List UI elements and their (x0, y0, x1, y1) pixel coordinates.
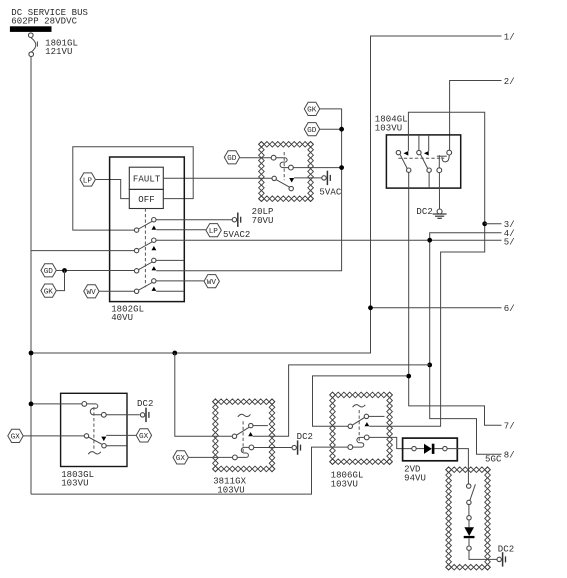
junction terminal3 (482, 221, 487, 226)
contact 1804GL c2 NO mark (424, 151, 429, 156)
contact 1802GL row1 NO mark (152, 226, 157, 230)
contact 3811GX (232, 423, 253, 438)
contact 1806GL (348, 414, 369, 428)
wire ring to OFF box (73, 147, 193, 230)
label DC2 5GC (498, 544, 514, 554)
terminal 4/ (504, 229, 515, 239)
bus bar (10, 26, 52, 32)
junction bus y353 (29, 351, 34, 356)
svg-text:GK: GK (307, 107, 317, 115)
wire bus vertical (30, 56, 32, 494)
lamp 20LP hatched box (259, 142, 314, 202)
wire coil 1806GL to 2VD (369, 437, 412, 448)
svg-text:1/: 1/ (504, 32, 515, 42)
svg-text:121VU: 121VU (45, 47, 72, 57)
terminal 3/ (504, 220, 515, 230)
wire 5GC switch to diode (468, 505, 470, 516)
relay 1804GL box (386, 135, 460, 188)
svg-text:GD: GD (44, 268, 54, 276)
svg-text:GX: GX (176, 455, 186, 463)
wire row1 NO to LP (156, 229, 205, 231)
contact 1802GL row4 NO mark (152, 287, 157, 291)
relay 3811GX hatched box (213, 399, 275, 472)
wire coil 1803GL to ground (106, 414, 140, 416)
svg-text:7/: 7/ (504, 422, 515, 432)
label 1801GL (45, 38, 78, 57)
contact 1803GL NO mark (101, 437, 106, 442)
terminal 5/ (504, 238, 515, 248)
wire terminal4 net (430, 233, 502, 454)
wire GX to 1803GL contact (24, 435, 85, 437)
squiggle 1806GL (353, 405, 366, 408)
label 20LP 70VU (252, 207, 274, 226)
contact 1802GL row1 (134, 218, 156, 233)
svg-text:5VAC2: 5VAC2 (223, 230, 250, 240)
diode circle bottom 5GC (467, 546, 471, 550)
dashed link 1806GL (358, 410, 360, 442)
coil 1804GL (437, 150, 452, 172)
wire 1803GL contact stub (106, 445, 126, 447)
coil 1803GL (82, 402, 106, 418)
diode circle top 5GC (467, 516, 471, 520)
relay 1806GL hatched box (330, 392, 393, 464)
svg-text:OFF: OFF (138, 195, 154, 205)
wire feed to 3811GX common (175, 353, 233, 436)
wire row1 to 5VAC ground (156, 219, 232, 221)
label 1803GL (61, 470, 94, 489)
wire 5GC to ground (469, 550, 497, 559)
svg-text:5/: 5/ (504, 238, 515, 248)
wire row4 NO stub (156, 290, 184, 292)
switch 5GC hatched box (446, 467, 491, 570)
svg-text:103VU: 103VU (375, 123, 402, 133)
svg-text:DC2: DC2 (137, 399, 153, 409)
svg-text:DC2: DC2 (416, 207, 432, 217)
terminal 2/ (504, 77, 515, 87)
ground DC2 5GC (497, 552, 506, 566)
wire LP to OFF box (96, 180, 130, 199)
svg-text:GK: GK (44, 288, 54, 296)
coil 1806GL (348, 435, 369, 450)
svg-text:6/: 6/ (504, 304, 515, 314)
junction terminal5 net (427, 238, 432, 243)
wire bus bottom run (31, 447, 348, 494)
svg-text:103VU: 103VU (331, 479, 358, 489)
wire GD to lamp coil (240, 157, 271, 159)
wire row4 to WV (156, 280, 204, 282)
label DC2 1804GL (416, 207, 432, 217)
hexagon flag LP right (206, 224, 221, 237)
label 3811GX (213, 477, 246, 496)
coil 3811GX (233, 445, 254, 460)
wire bus to coil 1803GL (31, 403, 82, 405)
wire 3811GX NO to net (253, 365, 430, 436)
wire FAULT to lamp switch (163, 177, 272, 179)
svg-text:2/: 2/ (504, 77, 515, 87)
hexagon flag GD top (304, 123, 319, 136)
contact 1806GL NC stub (369, 415, 385, 417)
squiggle 1803GL (88, 452, 101, 455)
wire NO net 1804GL (369, 112, 484, 426)
wire common net 1804GL to terminal7 (409, 172, 502, 425)
svg-text:WV: WV (207, 279, 217, 287)
lamp switch 20LP (272, 176, 293, 191)
svg-text:8/: 8/ (504, 451, 515, 461)
label 2VD (404, 465, 426, 484)
junction GD/GK (62, 268, 67, 273)
svg-text:FAULT: FAULT (133, 175, 161, 185)
wire WV to row4 (99, 290, 134, 292)
label 5VAC (319, 188, 341, 198)
hexagon flag GX edge (8, 429, 23, 442)
junction terminal6 (368, 305, 373, 310)
contact 1804GL c2 (417, 150, 432, 172)
label 1804GL (375, 115, 408, 134)
svg-text:103VU: 103VU (61, 479, 88, 489)
contact 1804GL c1 NO mark (404, 151, 409, 156)
contact 1802GL row4 (134, 279, 156, 294)
junction GD lamp net (339, 127, 344, 132)
hexagon flag WV left (84, 285, 99, 298)
label 5GC (485, 454, 502, 464)
terminal 1/ (504, 32, 515, 42)
svg-text:DC2: DC2 (297, 432, 313, 442)
svg-text:LP: LP (209, 228, 219, 236)
label DC2 3811GX (297, 432, 313, 442)
wire 5GC diode stub top (468, 520, 470, 527)
svg-text:5GC: 5GC (485, 454, 502, 464)
dashed link 3811GX (242, 421, 244, 453)
wire terminal3 branch (485, 223, 502, 225)
svg-text:WV: WV (87, 289, 97, 297)
lamp 20LP filament coil (271, 155, 293, 170)
label DC2 1803GL (137, 399, 153, 409)
wire bus to row2 (31, 250, 135, 252)
contact 1803GL (84, 434, 106, 448)
ground 5VAC (322, 171, 331, 185)
junction bus coil 1803GL (29, 402, 34, 407)
hexagon flag GX 3811 (173, 451, 188, 464)
label 1802GL (111, 305, 144, 324)
wire 1804GL c2 NO stub (428, 136, 430, 151)
wire row2 to terminal 5 (156, 239, 502, 241)
wire GX to coil 3811GX (189, 456, 233, 458)
svg-text:5VAC: 5VAC (319, 188, 341, 198)
indicator box OFF (129, 189, 163, 208)
terminal 7/ (504, 422, 515, 432)
svg-text:GD: GD (227, 155, 237, 163)
diode 2VD (412, 444, 447, 454)
svg-text:40VU: 40VU (111, 313, 133, 323)
svg-text:GD: GD (307, 127, 317, 135)
svg-text:70VU: 70VU (252, 216, 274, 226)
contact 3811GX NC stub (253, 425, 268, 427)
dashed link 1802GL (144, 209, 146, 288)
svg-text:103VU: 103VU (217, 485, 244, 495)
wire terminal6 branch (371, 307, 502, 309)
ground DC2 1804GL (433, 209, 447, 218)
ground DC2 3811GX (292, 440, 301, 454)
wire 1804GL c2 top stub (418, 136, 420, 151)
label 1806GL (331, 471, 364, 490)
hexagon flag LP (80, 173, 95, 186)
svg-text:GX: GX (139, 433, 149, 441)
wire GD to row3 (57, 270, 135, 272)
wire GK up to GD wire (57, 271, 65, 291)
relay 1802GL box (110, 157, 185, 302)
contact 1804GL c1 (396, 150, 411, 172)
hexagon flag GK (41, 284, 56, 297)
dashed link 1803GL (93, 407, 95, 449)
contact 1802GL row2 (134, 238, 156, 253)
junction 1806 common net (406, 374, 411, 379)
dashed link 1804GL (398, 157, 444, 159)
diode 5GC (464, 527, 475, 538)
hexagon flag GX 1803 (136, 429, 151, 442)
circuit breaker 1801GL (29, 33, 38, 57)
hexagon flag GK top (304, 102, 319, 115)
svg-text:94VU: 94VU (404, 473, 426, 483)
contact 1806GL NO mark (365, 422, 370, 426)
wire row3 NO to lamp net (156, 109, 341, 271)
wire row3 stub (156, 259, 184, 261)
squiggle 3811GX (238, 414, 251, 417)
wire coil 1804GL to ground (438, 173, 440, 209)
wire GX right to NO 1803GL (106, 434, 136, 436)
lamp switch NO mark (289, 178, 294, 183)
wire GD top to lamp net (320, 128, 342, 130)
hexagon flag WV right (204, 275, 219, 288)
hexagon flag GD (41, 264, 56, 277)
indicator box FAULT (129, 167, 163, 189)
ground DC2 1803GL (140, 408, 148, 422)
junction lamp coil net (339, 165, 344, 170)
dashed link 20LP (283, 152, 285, 180)
ground 5VAC row1 (232, 213, 241, 227)
wire 1806 common riser (313, 376, 407, 426)
contact 1802GL row2 NO mark (152, 246, 157, 250)
contact 3811GX NO mark (248, 432, 253, 436)
wire lamp switch to 5VAC ground (294, 177, 322, 179)
wire 2VD to 5GC box (447, 449, 468, 484)
wire terminal1 net (31, 36, 502, 353)
svg-text:602PP 28VDVC: 602PP 28VDVC (11, 17, 77, 27)
junction 3811 NO net (427, 363, 432, 368)
terminal 8/ (504, 451, 515, 461)
terminal 6/ (504, 304, 515, 314)
diode 2VD box (403, 438, 458, 461)
wire 1804GL c2 bottom stub (428, 172, 430, 187)
wire coil 3811GX to ground (254, 447, 292, 449)
relay 1803GL box (61, 393, 127, 466)
wire lamp coil to net (293, 167, 341, 169)
label 5VAC2 (223, 230, 250, 240)
switch 5GC (467, 484, 476, 505)
wire terminal2 to coil 1804GL (450, 81, 502, 151)
wire 5GC diode stub bottom (468, 538, 470, 546)
junction 3811 feed (172, 351, 177, 356)
svg-text:DC2: DC2 (498, 544, 514, 554)
DC service bus label (11, 8, 88, 27)
contact 1802GL row3 NO mark (152, 266, 157, 270)
svg-text:GX: GX (11, 434, 21, 442)
svg-text:LP: LP (83, 177, 93, 185)
hexagon flag GD lamp (224, 151, 239, 164)
contact 1802GL row3 (134, 258, 156, 273)
